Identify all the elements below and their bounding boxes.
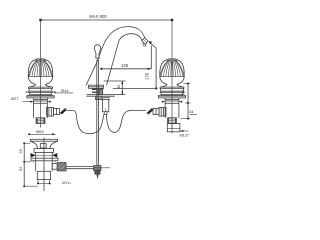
- flexible hose left: [66, 110, 104, 133]
- svg-text:52: 52: [18, 166, 23, 171]
- aerator tip: [142, 38, 149, 44]
- collar: [34, 149, 54, 153]
- svg-text:135: 135: [121, 63, 129, 68]
- dia 27 arrows: [30, 101, 50, 103]
- handle H2 (right cold, mirrored): [153, 20, 186, 128]
- svg-text:55: 55: [18, 148, 23, 153]
- svg-text:34: 34: [189, 109, 194, 114]
- base rings: [29, 87, 53, 88]
- threaded tail: [36, 118, 45, 124]
- svg-text:Ø27: Ø27: [11, 96, 19, 101]
- ball joint block: [57, 163, 66, 171]
- neck: [29, 84, 53, 87]
- dimension 45 spout base: [104, 81, 126, 95]
- tee shank: [102, 97, 110, 99]
- seal wings: [31, 153, 36, 158]
- svg-text:178: 178: [144, 72, 149, 80]
- label dia 1/2 inch: [180, 130, 191, 138]
- horizontal lever rod: [66, 166, 94, 168]
- base plate: [89, 85, 104, 88]
- hose coupling right: [147, 108, 154, 114]
- dimension 65 (right handle): [181, 83, 191, 104]
- label dia27: [11, 96, 30, 102]
- pipe end (right handle): [167, 124, 180, 134]
- flange plate: [31, 158, 58, 161]
- svg-text:Ø1/2": Ø1/2": [180, 133, 191, 138]
- flexible hose right: [106, 110, 146, 132]
- plug cap: [30, 139, 57, 141]
- rod guide below deck: [96, 96, 102, 99]
- centerline: [40, 20, 42, 128]
- svg-text:65: 65: [181, 90, 186, 95]
- escutcheon flange: [27, 96, 54, 98]
- ball flutes: [29, 59, 53, 76]
- svg-text:MAX 600: MAX 600: [89, 14, 107, 19]
- drain pop-up waste: [28, 129, 71, 191]
- ball knob dome: [28, 59, 52, 85]
- pop-up rod: [94, 60, 110, 180]
- dimension MAX 600: [39, 14, 173, 21]
- mounting nut: [92, 88, 103, 90]
- outlet connector: [54, 108, 60, 114]
- svg-text:45: 45: [116, 84, 121, 89]
- deck lines: [87, 94, 116, 96]
- pop-up knob: [94, 45, 100, 58]
- side outlet hex nut: [47, 107, 54, 116]
- rod clamp joint: [94, 166, 101, 171]
- rod clamp above deck: [97, 89, 102, 95]
- drain vertical dimensions 55 / 52: [18, 142, 38, 187]
- inner curve: [107, 34, 143, 86]
- dimension 34 (right handle): [181, 102, 198, 120]
- svg-text:Ø63: Ø63: [36, 129, 44, 134]
- outer curve: [86, 27, 145, 86]
- dim dia 1 1/4: [37, 180, 39, 185]
- ball lower cap: [28, 77, 52, 85]
- centerline: [43, 138, 45, 192]
- dimension 135: [100, 46, 151, 70]
- spout body: [86, 27, 148, 115]
- body upper: [36, 152, 53, 171]
- hose coupling left: [60, 108, 67, 114]
- plug stem: [40, 144, 46, 148]
- link line right: [101, 167, 110, 169]
- handle H1 (left hot): [27, 20, 60, 128]
- label dia44: [26, 88, 73, 93]
- svg-text:Ø1¼: Ø1¼: [62, 180, 71, 185]
- body lower: [37, 171, 50, 179]
- shank below deck: [34, 98, 48, 118]
- svg-text:Ø44: Ø44: [61, 88, 69, 93]
- side arm socket: [52, 163, 57, 169]
- dimension 178 spout height: [113, 41, 158, 89]
